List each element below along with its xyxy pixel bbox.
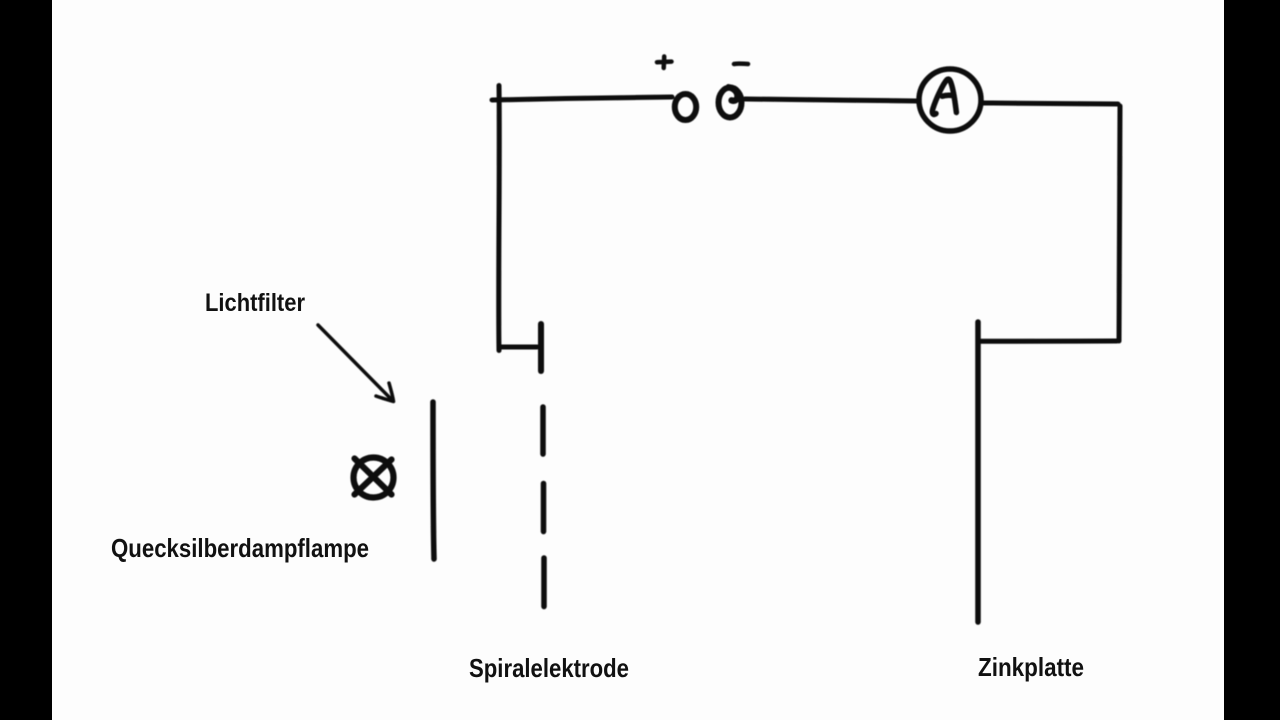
lamp: X stroke 1: [355, 459, 392, 495]
node: − supply terminal: [719, 88, 742, 118]
light filter plate (Lichtfilter): [433, 402, 434, 559]
wire: left vertical wire (supply + to spiral electrode branch): [496, 86, 502, 351]
node: − terminal pen curl: [729, 87, 738, 100]
wire: right horizontal connector to zinc plate: [979, 339, 1118, 344]
wire: left horizontal connector to spiral electrode: [500, 345, 538, 350]
arrow: head: [376, 383, 394, 402]
spiral electrode: dashed axis (dash 1): [540, 407, 546, 454]
svg-text:Quecksilberdampflampe: Quecksilberdampflampe: [111, 533, 369, 563]
lamp: X stroke 2: [355, 460, 392, 495]
label: − polarity sign: [734, 61, 748, 66]
svg-text:Lichtfilter: Lichtfilter: [205, 289, 305, 317]
wire: top horizontal, − terminal to ammeter: [745, 99, 917, 101]
ammeter A: circle: [919, 69, 981, 131]
node: + supply terminal: [675, 94, 696, 120]
wire: ammeter to top-right corner: [981, 103, 1118, 104]
label: + polarity sign: [657, 57, 672, 69]
video letterbox right bar: [1224, 0, 1280, 720]
arrow: from Lichtfilter label to filter, shaft: [318, 325, 393, 401]
svg-text:Spiralelektrode: Spiralelektrode: [469, 653, 629, 683]
video letterbox left bar: [0, 0, 52, 720]
spiral electrode: dashed axis (dash 3): [541, 558, 547, 607]
ammeter A: letter A: [932, 79, 956, 114]
wire: top horizontal, left segment to + terminal: [492, 97, 672, 100]
electrode: zinc plate (Zinkplatte): [975, 322, 981, 622]
wire: right vertical wire: [1119, 106, 1120, 341]
electrode: spiral electrode terminal bar: [538, 324, 544, 371]
lamp: mercury vapour lamp circle: [354, 458, 394, 498]
spiral electrode: dashed axis (dash 2): [541, 484, 547, 532]
svg-text:Zinkplatte: Zinkplatte: [978, 652, 1084, 682]
